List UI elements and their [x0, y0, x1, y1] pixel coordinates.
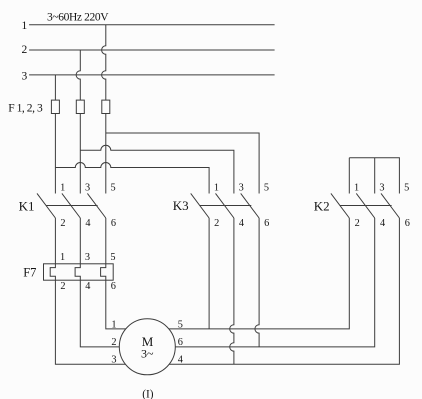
- F7 pin 3: [85, 252, 90, 263]
- svg-text:3~: 3~: [141, 347, 154, 361]
- svg-text:2: 2: [60, 218, 65, 229]
- motor terminal label 3: [111, 354, 116, 365]
- svg-text:5: 5: [264, 182, 269, 193]
- contactor K3 pole 2 blade: [216, 193, 234, 218]
- svg-text:1: 1: [60, 252, 65, 263]
- F7 pin 5: [110, 252, 115, 263]
- svg-text:2: 2: [355, 218, 360, 229]
- contactor K3 label: [173, 198, 189, 213]
- K2 pin 2: [355, 218, 360, 229]
- svg-text:6: 6: [111, 218, 116, 229]
- svg-text:3: 3: [111, 354, 116, 365]
- figure label (I): [142, 389, 154, 399]
- contactor K2 pole 2 blade: [356, 193, 374, 218]
- svg-text:4: 4: [239, 218, 244, 229]
- K1 pin 5: [111, 182, 116, 193]
- svg-text:6: 6: [178, 337, 183, 348]
- wire branch from L3 tap to K3 pole 1 top (hops over L2 and L1 taps): [55, 163, 209, 194]
- contactor K1 pole 2 blade: [62, 193, 80, 218]
- svg-text:(I): (I): [142, 389, 154, 399]
- svg-text:6: 6: [111, 281, 116, 292]
- contactor K3 pole 3 blade: [241, 193, 259, 218]
- contactor K3 linkage bar: [200, 205, 252, 207]
- wire branch from L2 tap to K3 pole 2 top (hops over L1 tap): [80, 145, 234, 193]
- K2 pin 5: [404, 182, 409, 193]
- fuse F3: [102, 100, 110, 113]
- motor M circle: [119, 319, 175, 375]
- contactor K1 pole 1 blade: [37, 193, 55, 218]
- wire K3 pole 1 bottom to motor wire 5: [208, 218, 210, 329]
- svg-text:2: 2: [214, 218, 219, 229]
- svg-text:K2: K2: [314, 198, 330, 213]
- F7 heater element pole 3 and wire down to motor terminal 1: [101, 264, 127, 329]
- wire K1 pole 3 bottom to F7: [105, 218, 107, 264]
- wire motor terminal 5 to K2 pole 1 bottom: [169, 218, 350, 329]
- K2 pin 3: [379, 182, 384, 193]
- supply value label 3~60Hz 220V: [47, 12, 109, 24]
- node L1 label: [22, 20, 28, 32]
- motor terminal label 6: [178, 337, 183, 348]
- F7 pin 1: [60, 252, 65, 263]
- wire K1 pole 2 bottom to F7: [79, 218, 81, 264]
- motor terminal label 4: [178, 354, 183, 365]
- K3 pin 3: [239, 182, 244, 193]
- wire supply line 2: [29, 49, 275, 51]
- wire tap from line 1 down through fuse to K1 pole 3 (hops over lines 2,3): [102, 25, 106, 194]
- svg-text:3: 3: [239, 182, 244, 193]
- motor terminal label 5: [178, 319, 183, 330]
- K3 pin 5: [264, 182, 269, 193]
- contactor K2 pole 1 blade: [331, 193, 349, 218]
- svg-text:4: 4: [380, 218, 385, 229]
- motor label M: [142, 334, 154, 349]
- svg-text:5: 5: [110, 252, 115, 263]
- fuse F1: [51, 100, 59, 113]
- contactor K3 pole 1 blade: [191, 193, 209, 218]
- F7 heater element pole 1 and wire down to motor terminal 3: [50, 264, 126, 365]
- svg-text:3: 3: [22, 71, 28, 83]
- svg-text:4: 4: [85, 218, 90, 229]
- label F7: [23, 265, 36, 279]
- motor terminal label 1: [111, 319, 116, 330]
- K2 pin 6: [405, 218, 410, 229]
- svg-text:4: 4: [85, 281, 90, 292]
- fuse F2: [76, 100, 84, 113]
- svg-text:2: 2: [60, 281, 65, 292]
- K3 pin 6: [264, 218, 269, 229]
- svg-text:4: 4: [178, 354, 183, 365]
- contactor K2 label: [314, 198, 330, 213]
- F7 heater element pole 2 and wire down to motor terminal 2: [75, 264, 120, 347]
- contactor K2 pole 3 blade: [381, 193, 399, 218]
- wire K2 star bus and pole top stubs: [349, 158, 399, 194]
- contactor K2 linkage bar: [340, 205, 392, 207]
- svg-text:3: 3: [379, 182, 384, 193]
- svg-text:1: 1: [214, 182, 219, 193]
- K3 pin 1: [214, 182, 219, 193]
- wire K3 pole 3 bottom to motor wire 6 (hops over wire 5): [255, 218, 259, 347]
- K1 pin 1: [60, 182, 65, 193]
- svg-text:6: 6: [405, 218, 410, 229]
- svg-text:K3: K3: [173, 198, 189, 213]
- K1 pin 3: [85, 182, 90, 193]
- wire K3 pole 2 bottom to motor wire 4 (hops over wires 5,6): [230, 218, 234, 364]
- motor label 3~: [141, 347, 154, 361]
- svg-text:1: 1: [354, 182, 359, 193]
- F7 pin 6: [111, 281, 116, 292]
- K3 pin 2: [214, 218, 219, 229]
- svg-text:2: 2: [22, 44, 28, 56]
- svg-text:3~60Hz 220V: 3~60Hz 220V: [47, 12, 109, 24]
- K2 pin 4: [380, 218, 385, 229]
- K1 pin 2: [60, 218, 65, 229]
- contactor K1 label: [19, 198, 35, 213]
- svg-text:K1: K1: [19, 198, 35, 213]
- wire tap from line 2 down through fuse to K1 pole 2 (hops over line 3): [76, 50, 80, 194]
- svg-text:5: 5: [404, 182, 409, 193]
- contactor K1 linkage bar: [46, 205, 98, 207]
- svg-text:1: 1: [111, 319, 116, 330]
- wire supply line 3: [29, 74, 275, 76]
- overload relay F7 box: [44, 264, 114, 280]
- K1 pin 4: [85, 218, 90, 229]
- svg-text:3: 3: [85, 252, 90, 263]
- F7 pin 4: [85, 281, 90, 292]
- K1 pin 6: [111, 218, 116, 229]
- svg-text:3: 3: [85, 182, 90, 193]
- node L2 label: [22, 44, 28, 56]
- wire supply line 1: [29, 24, 275, 26]
- motor terminal label 2: [111, 337, 116, 348]
- label F 1, 2, 3: [8, 103, 43, 115]
- svg-text:6: 6: [264, 218, 269, 229]
- svg-text:1: 1: [60, 182, 65, 193]
- K2 pin 1: [354, 182, 359, 193]
- svg-text:F 1, 2, 3: F 1, 2, 3: [8, 103, 43, 115]
- svg-text:5: 5: [111, 182, 116, 193]
- wire motor terminal 4 to K2 pole 3 bottom: [169, 218, 399, 364]
- wire branch from L1 tap to K3 pole 3 top: [106, 133, 259, 194]
- svg-text:F7: F7: [23, 265, 36, 279]
- contactor K1 pole 3 blade: [87, 193, 105, 218]
- svg-text:2: 2: [111, 337, 116, 348]
- wire tap from line 3 down through fuse to K1 pole 1: [54, 75, 56, 194]
- K3 pin 4: [239, 218, 244, 229]
- wire motor terminal 6 to K2 pole 2 bottom: [175, 218, 374, 347]
- node L3 label: [22, 71, 28, 83]
- wire K1 pole 1 bottom to F7: [54, 218, 56, 264]
- svg-text:1: 1: [22, 20, 28, 32]
- F7 pin 2: [60, 281, 65, 292]
